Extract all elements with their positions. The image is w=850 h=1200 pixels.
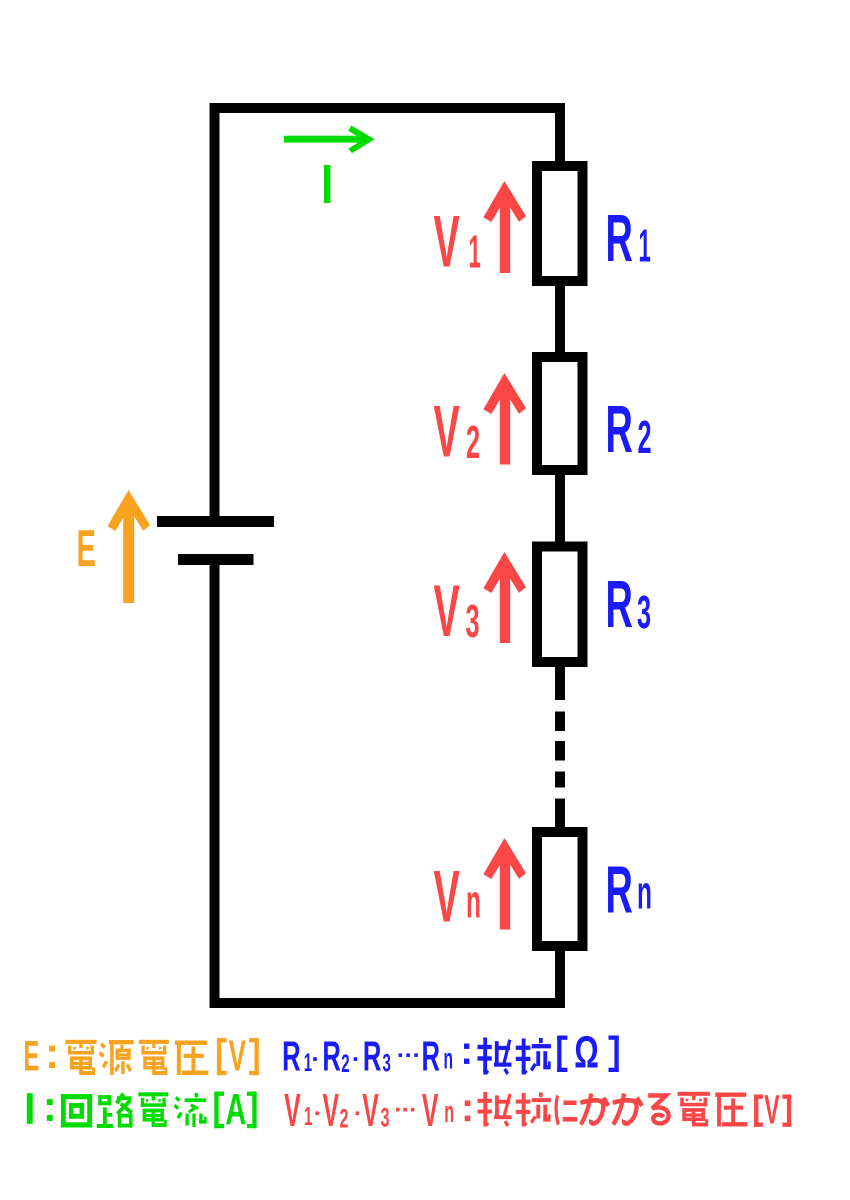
battery E long plate	[157, 516, 274, 527]
kanji den3	[138, 1092, 168, 1127]
wire dash 2	[555, 741, 565, 761]
svg-text:V: V	[434, 392, 460, 473]
wire Rn to bottom	[555, 949, 565, 998]
bracket [	[217, 1038, 221, 1075]
colon	[464, 1044, 469, 1049]
legend line 2 : I	[27, 1084, 257, 1134]
wire R2-R3	[555, 473, 565, 544]
svg-text:1: 1	[639, 219, 651, 271]
resistor R1	[537, 166, 583, 281]
kanji atsu2	[715, 1092, 747, 1126]
svg-text:A: A	[225, 1084, 246, 1134]
svg-text:R: R	[606, 201, 633, 276]
svg-text:R: R	[606, 852, 633, 927]
kanji gen	[99, 1040, 134, 1075]
kana ru	[648, 1096, 669, 1124]
svg-text:V: V	[764, 1088, 779, 1134]
dot	[356, 1111, 360, 1115]
resistor Rn	[537, 832, 583, 946]
svg-text:R: R	[606, 567, 633, 642]
svg-text:V: V	[362, 1085, 379, 1136]
voltage arrow Vn	[483, 838, 526, 930]
bracket ]	[252, 1092, 256, 1129]
resistor R3	[537, 547, 583, 663]
svg-text:2: 2	[340, 1103, 349, 1133]
bracket ]	[787, 1095, 791, 1127]
wire left upper	[210, 103, 220, 516]
bracket ]	[255, 1038, 259, 1075]
svg-text:2: 2	[341, 1050, 349, 1078]
battery E short plate	[178, 554, 254, 565]
svg-text:R: R	[422, 1034, 440, 1080]
resistor R2	[537, 357, 583, 470]
wire dash 3	[555, 772, 565, 788]
kanji kai	[61, 1094, 92, 1128]
wire R1-R2	[555, 284, 565, 354]
colon	[49, 1046, 55, 1052]
kanji den1	[65, 1040, 96, 1075]
wire bottom	[210, 998, 566, 1008]
dot	[313, 1057, 317, 1061]
svg-text:R: R	[322, 1034, 340, 1080]
kanji kou2	[516, 1092, 551, 1126]
svg-text:V: V	[284, 1085, 301, 1136]
current arrow I	[284, 126, 375, 153]
svg-text:R: R	[363, 1034, 381, 1080]
svg-text:3: 3	[637, 586, 651, 638]
label I legend	[27, 1093, 33, 1124]
kanji atsu	[175, 1040, 208, 1074]
wire dash 1	[555, 712, 565, 732]
kanji den4	[678, 1092, 710, 1127]
kanji den2	[139, 1040, 169, 1075]
svg-text:V: V	[323, 1085, 340, 1136]
wire right top	[555, 103, 565, 163]
kanji ro	[97, 1093, 133, 1128]
kana ni	[556, 1096, 577, 1125]
wire top	[210, 103, 566, 113]
svg-text:1: 1	[304, 1102, 313, 1131]
svg-text:n: n	[637, 866, 652, 919]
wire R3 below	[555, 665, 565, 700]
EMF arrow E	[108, 490, 151, 603]
dot	[354, 1057, 358, 1061]
svg-text:V: V	[434, 202, 460, 283]
svg-text:1: 1	[469, 225, 481, 277]
svg-text:1: 1	[304, 1049, 312, 1077]
dot	[315, 1111, 319, 1115]
bracket [	[557, 1036, 561, 1073]
svg-text:n: n	[444, 1096, 454, 1130]
svg-text:V: V	[434, 857, 460, 938]
svg-text:V: V	[229, 1031, 246, 1081]
kanji tei	[477, 1038, 511, 1076]
svg-text:R: R	[606, 392, 633, 467]
legend line 4 : V	[284, 1085, 791, 1136]
svg-text:3: 3	[381, 1102, 390, 1132]
kanji tei2	[478, 1092, 512, 1127]
colon	[465, 1100, 471, 1106]
voltage arrow V2	[483, 373, 526, 465]
kana ka1	[580, 1094, 608, 1125]
kanji ryu	[173, 1093, 206, 1127]
wire left lower	[210, 560, 220, 1008]
ellipsis	[399, 1053, 403, 1057]
label I	[324, 165, 330, 203]
svg-text:E: E	[24, 1033, 40, 1080]
svg-text:V: V	[434, 571, 460, 652]
svg-text:3: 3	[383, 1049, 391, 1077]
kana ka2	[613, 1094, 642, 1125]
svg-text:2: 2	[638, 411, 652, 463]
svg-text:V: V	[422, 1085, 439, 1136]
bracket ]	[614, 1036, 618, 1073]
colon	[47, 1099, 53, 1105]
svg-text:R: R	[282, 1034, 300, 1080]
svg-text:3: 3	[466, 595, 480, 647]
svg-text:E: E	[77, 519, 96, 577]
svg-text:n: n	[466, 875, 481, 928]
kanji kou	[516, 1038, 551, 1075]
bracket [	[214, 1092, 218, 1129]
wire above Rn	[555, 799, 565, 829]
bracket [	[754, 1095, 758, 1127]
svg-text:2: 2	[466, 416, 480, 468]
svg-text:n: n	[444, 1042, 454, 1076]
voltage arrow V3	[483, 552, 526, 643]
legend line 1 : E	[24, 1031, 259, 1081]
svg-text:Ω: Ω	[574, 1028, 599, 1078]
voltage arrow V1	[483, 181, 526, 273]
legend line 3 : R	[282, 1028, 619, 1081]
ellipsis	[396, 1108, 400, 1112]
